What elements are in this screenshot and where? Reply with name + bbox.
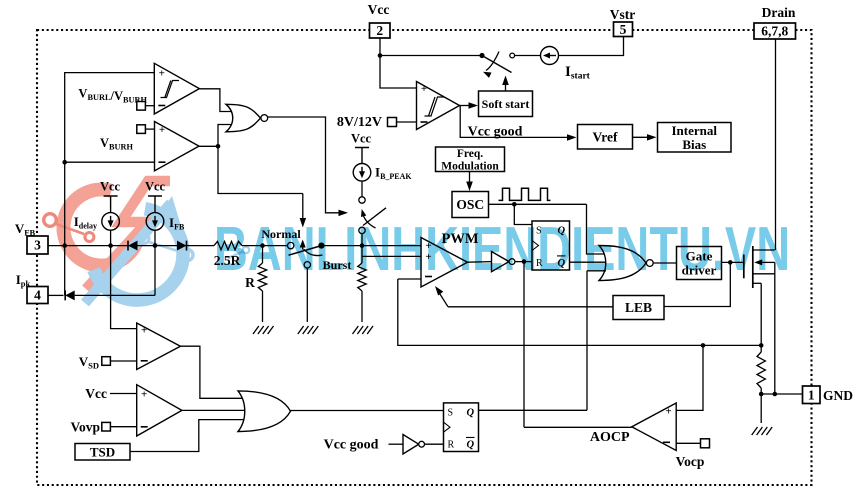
node sense: [759, 343, 764, 348]
wire Idelay to VSD +: [111, 230, 137, 328]
pin 2 (Vcc): [370, 23, 391, 38]
svg-text:Freq.: Freq.: [457, 148, 483, 160]
startup switch contact: [510, 53, 515, 58]
comparator PWM U3: [421, 238, 468, 288]
svg-text:+: +: [141, 388, 147, 400]
svg-text:Bias: Bias: [682, 137, 706, 152]
MOSFET SenseFET Q1: [743, 255, 745, 279]
wire to pin1 GND: [761, 393, 802, 395]
current source IB_PEAK: [353, 164, 371, 182]
resistor Rsense: [757, 352, 765, 388]
switch arc: [304, 249, 323, 256]
pins 6,7,8 (Drain): [754, 23, 796, 39]
wire switch to Istart: [515, 55, 541, 57]
resistor burst divider: [358, 263, 366, 291]
current source IFB: [146, 213, 164, 231]
wire AOCP - to Vocp: [676, 442, 700, 444]
comparator VSD: [137, 323, 181, 370]
Vcc T-bar: [104, 196, 118, 213]
wire 8V/12V to UVLO -: [397, 121, 417, 123]
svg-text:R: R: [448, 439, 455, 450]
wire buffer to latch R: [425, 443, 444, 445]
arrow at IBpeak switch: [339, 210, 349, 217]
node burst rail: [62, 160, 67, 165]
resistor 2.5R: [214, 241, 242, 249]
startup switch pole: [479, 53, 484, 58]
node AOCP tap: [701, 343, 706, 348]
svg-text:6,7,8: 6,7,8: [761, 24, 788, 39]
IBpeak switch lower contact: [359, 227, 365, 233]
arrow Soft start to switch: [505, 79, 507, 92]
8V/12V reference terminal: [388, 118, 397, 127]
node GND rail left: [759, 392, 764, 397]
VBURL/VBURH terminal: [137, 102, 146, 111]
pin 4 (Ipk): [27, 287, 48, 304]
wire burst control to Normal switch: [218, 146, 303, 193]
current source Istart: [541, 47, 559, 65]
ground below burst divider: [353, 326, 374, 334]
wire inverter to latch R: [515, 261, 532, 263]
node gate drive tee: [728, 260, 733, 265]
svg-text:Vovp: Vovp: [70, 420, 100, 435]
wire gate drive to LEB: [664, 262, 730, 306]
wire bottom latch Q to NOR input: [587, 270, 606, 272]
wire comp2 to NOR1: [218, 125, 233, 147]
wire NOR output to IBpeak switch: [268, 117, 345, 213]
pin 1 (GND): [803, 386, 821, 404]
svg-text:Vcc good: Vcc good: [468, 125, 523, 140]
wire Burst contact to ground: [306, 268, 308, 322]
svg-text:TSD: TSD: [90, 444, 115, 459]
svg-text:AOCP: AOCP: [590, 430, 630, 445]
arrow into Soft start: [469, 102, 479, 109]
diode D3: [65, 290, 75, 300]
wire switch pole to PWM +: [321, 245, 421, 247]
NOR gate U5: [599, 246, 646, 281]
block Gate driver: [677, 247, 722, 280]
Vocp terminal: [701, 439, 710, 448]
current source Idelay: [102, 213, 120, 231]
svg-text:+: +: [665, 405, 671, 417]
node R input junction: [522, 259, 527, 264]
body/source wire down to GND: [774, 262, 776, 394]
svg-text:OSC: OSC: [456, 197, 484, 212]
wire AOCP output: [524, 426, 632, 428]
Vcc T-bar: [355, 148, 369, 164]
source wire to sense node: [760, 283, 762, 352]
wire AOCP + to sense: [676, 345, 703, 410]
IBpeak switch blade: [363, 208, 386, 226]
NOR gate burst logic: [226, 104, 261, 132]
hysteresis symbol: [161, 81, 180, 98]
switch blade: [289, 246, 322, 256]
wire IFB down to Ipk rail: [154, 230, 156, 295]
wire OR to protection latch S: [291, 410, 444, 412]
wire VFB rail: [48, 245, 214, 247]
comparator burst hysteresis: [154, 63, 199, 114]
comparator VBURH: [155, 122, 200, 171]
wire Gate driver to MOSFET gate: [722, 261, 744, 263]
wire 2.5R to Normal contact: [242, 245, 287, 247]
wire OSC to PWM latch S: [514, 204, 532, 224]
svg-text:Vcc: Vcc: [368, 2, 390, 17]
node OSC output tee: [512, 202, 517, 207]
wire to resistor R: [262, 246, 264, 263]
wire pin2 to UVLO +: [380, 38, 417, 88]
watermark logo and text (decorative): [44, 181, 250, 303]
arrow at Normal switch: [300, 218, 307, 228]
block Soft start: [479, 91, 533, 117]
startup switch arc with arrow: [486, 52, 499, 71]
node Idelay: [108, 243, 113, 248]
svg-text:Vcc: Vcc: [351, 132, 372, 146]
startup switch blade: [482, 56, 512, 73]
inverter after PWM: [468, 261, 492, 264]
svg-text:Vcc: Vcc: [85, 386, 107, 401]
wire PWM - input: [398, 278, 421, 280]
block Internal Bias: [658, 123, 732, 153]
svg-text:Modulation: Modulation: [441, 161, 499, 173]
wire to PWM second +: [362, 255, 421, 257]
svg-text:+: +: [159, 67, 165, 79]
svg-text:Internal: Internal: [672, 123, 718, 138]
wire Istart to pin5: [559, 37, 624, 56]
wire AOCP to latch R: [523, 262, 525, 428]
wire latch Q up to NOR: [586, 271, 588, 411]
wire Vcc rail to startup switch: [380, 55, 482, 57]
wire comp2 out: [199, 145, 218, 147]
wire switch to rail: [361, 234, 363, 257]
clock pulse waveform: [499, 188, 551, 200]
switch contact Normal: [288, 242, 294, 248]
wire burst + sense rail: [65, 73, 155, 296]
wire latch Q out: [479, 409, 588, 411]
block LEB: [613, 296, 664, 320]
diode D2: [177, 241, 187, 251]
comparator UVLO (8V/12V): [417, 82, 460, 130]
wire VBURH - input: [65, 161, 155, 163]
wire Vref to Internal Bias: [633, 136, 654, 138]
svg-text:8V/12V: 8V/12V: [337, 115, 382, 130]
block OSC: [452, 192, 489, 218]
switch pole: [318, 243, 324, 249]
arrow LEB gating PWM: [435, 286, 443, 296]
VBURH terminal: [137, 125, 146, 134]
drain wire from pins 6,7,8: [775, 39, 777, 250]
svg-text:Vcc good: Vcc good: [324, 438, 379, 453]
wire OSC output: [489, 203, 587, 205]
svg-text:Q: Q: [467, 407, 475, 418]
wire OSC clock to NOR: [587, 204, 607, 254]
ground below Burst: [298, 326, 319, 334]
comparator AOCP: [632, 403, 676, 451]
block Freq. Modulation: [436, 147, 505, 172]
svg-text:3: 3: [34, 238, 41, 253]
wire to buffer: [389, 443, 404, 445]
svg-text:2: 2: [376, 23, 383, 38]
svg-text:Vocp: Vocp: [676, 454, 705, 469]
svg-text:5: 5: [620, 22, 627, 37]
resistor R: [258, 263, 266, 291]
OR gate protection: [238, 391, 291, 432]
node IFB: [153, 243, 158, 248]
wire FreqMod to OSC: [469, 172, 471, 189]
node Vcc rail junction: [378, 53, 383, 58]
svg-text:LEB: LEB: [625, 300, 652, 315]
ground below Rsense: [752, 427, 773, 435]
pin 5 (Vstr): [614, 22, 633, 37]
node divider: [260, 243, 265, 248]
wire latch Qbar to NOR: [570, 261, 607, 263]
IBpeak switch upper contact: [359, 197, 365, 203]
flip-flop protection latch U7: [444, 403, 479, 452]
wire VSD to OR: [180, 346, 246, 398]
svg-text:GND: GND: [823, 388, 853, 403]
wire LEB output: [448, 306, 613, 308]
svg-text:Vstr: Vstr: [610, 7, 636, 22]
VSD terminal: [102, 357, 111, 366]
flip-flop PWM latch U4: [532, 221, 570, 270]
svg-text:Vref: Vref: [593, 129, 618, 144]
svg-text:4: 4: [34, 288, 41, 303]
svg-text:+: +: [421, 83, 427, 95]
switch contact Burst: [304, 262, 310, 268]
wire current sense rail: [398, 279, 761, 345]
diode D1: [128, 241, 138, 251]
node VFB / Vburst tap: [62, 243, 67, 248]
IBpeak switch arc: [362, 212, 376, 229]
wire LEB arrow diagonal: [437, 289, 449, 307]
wire Vcc good to Vref: [460, 106, 573, 138]
svg-text:Soft start: Soft start: [482, 97, 530, 111]
svg-text:1: 1: [808, 387, 815, 402]
block Vref: [578, 125, 633, 150]
node comp2 out: [216, 144, 221, 149]
svg-text:+: +: [159, 124, 165, 136]
Vcc T-bar: [148, 196, 162, 213]
wire Vovp comp to OR: [182, 409, 248, 411]
Vovp terminal: [102, 422, 111, 431]
svg-text:S: S: [448, 407, 454, 418]
wire NOR to Gate driver: [653, 262, 676, 264]
svg-text:Q: Q: [467, 439, 475, 450]
wire UVLO out to Soft start: [460, 105, 476, 107]
node IB_PEAK divider: [360, 243, 365, 248]
svg-text:BANLINHKIENDIENTU.VN: BANLINHKIENDIENTU.VN: [214, 214, 790, 284]
inverter Vcc good: [403, 435, 419, 455]
wire Ipk rail: [75, 294, 155, 296]
pin 3 (VFB): [27, 236, 48, 254]
node GND rail right: [773, 392, 778, 397]
hysteresis symbol: [425, 97, 445, 116]
svg-text:Drain: Drain: [762, 5, 796, 20]
wire pin4: [48, 294, 64, 296]
wire comp1 to NOR1: [199, 89, 232, 112]
wire TSD to OR: [130, 420, 247, 452]
ground below R: [253, 326, 274, 334]
block TSD: [75, 444, 130, 461]
comparator Vovp: [137, 385, 182, 436]
svg-text:+: +: [141, 324, 147, 336]
